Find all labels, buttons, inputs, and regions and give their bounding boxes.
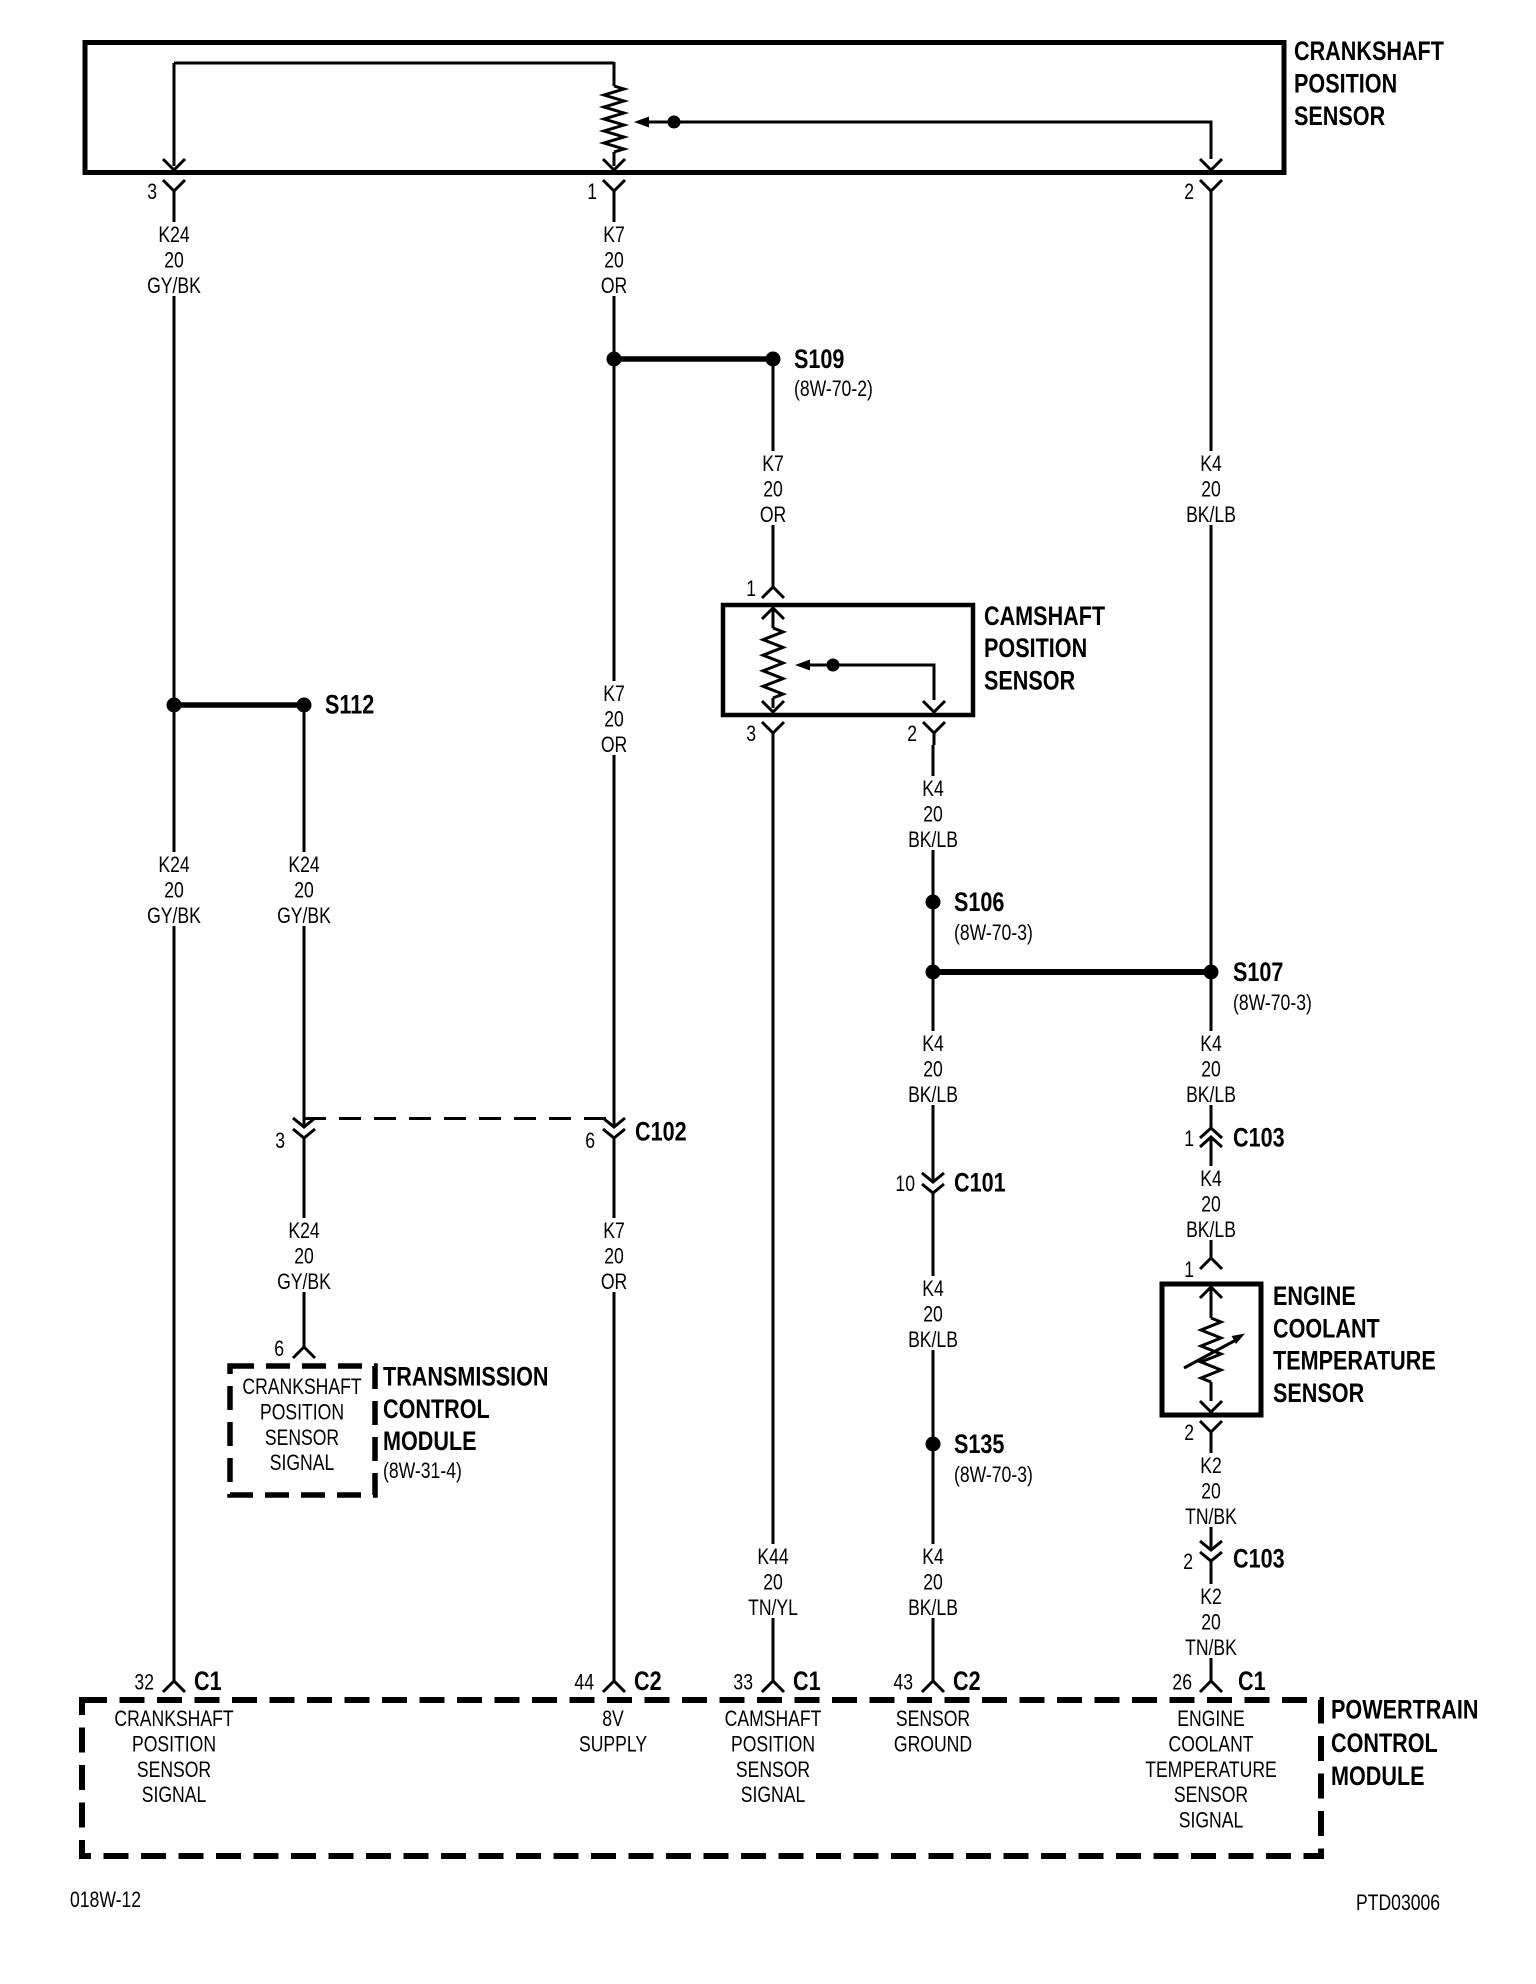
wire label K2 20 TN/BK (above C103)	[1181, 1453, 1241, 1527]
svg-text:20: 20	[294, 879, 314, 903]
svg-text:K4: K4	[922, 1032, 944, 1056]
svg-text:SENSOR: SENSOR	[265, 1426, 339, 1450]
svg-text:K24: K24	[158, 853, 189, 877]
engine coolant temperature sensor box	[1162, 1284, 1261, 1415]
svg-text:ENGINE: ENGINE	[1177, 1707, 1244, 1731]
svg-text:2: 2	[1184, 180, 1194, 204]
svg-text:CAMSHAFT: CAMSHAFT	[725, 1707, 822, 1731]
wire K7 C102 to PCM pin44	[613, 1153, 616, 1681]
svg-text:K7: K7	[603, 223, 625, 247]
svg-text:6: 6	[274, 1337, 284, 1361]
svg-text:CAMSHAFT: CAMSHAFT	[984, 602, 1105, 632]
svg-text:SENSOR: SENSOR	[1273, 1379, 1364, 1409]
svg-text:20: 20	[604, 708, 624, 732]
svg-text:K7: K7	[603, 682, 625, 706]
svg-text:43: 43	[893, 1671, 913, 1695]
wire pin3 internal drop	[173, 63, 176, 166]
arrow into pin 1	[603, 159, 625, 170]
svg-text:SIGNAL: SIGNAL	[1179, 1809, 1244, 1833]
wire label K7 20 OR (top)	[584, 222, 644, 296]
arrow into pin 3	[163, 159, 185, 170]
svg-text:(8W-70-3): (8W-70-3)	[1233, 991, 1312, 1015]
PCM pin 33 fork	[762, 1681, 784, 1692]
cam coil stem top	[772, 608, 775, 628]
wire K2 C103 to PCM pin26	[1210, 1576, 1213, 1681]
svg-text:SUPPLY: SUPPLY	[579, 1733, 647, 1757]
svg-text:1: 1	[1184, 1258, 1194, 1282]
svg-text:TN/BK: TN/BK	[1185, 1636, 1237, 1660]
wiper arrowhead (crankshaft sensor)	[634, 117, 649, 128]
wire K4 crank pin2 to C103	[1210, 203, 1213, 1128]
svg-text:POSITION: POSITION	[132, 1733, 216, 1757]
svg-text:BK/LB: BK/LB	[908, 1328, 958, 1352]
crankshaft position sensor box	[85, 43, 1284, 173]
svg-text:MODULE: MODULE	[1331, 1762, 1425, 1792]
svg-text:K4: K4	[1200, 1032, 1222, 1056]
svg-text:8V: 8V	[602, 1707, 624, 1731]
cam wiper tap dot	[827, 659, 840, 672]
svg-text:C1: C1	[793, 1667, 821, 1697]
svg-text:6: 6	[585, 1129, 595, 1153]
svg-text:K4: K4	[922, 1545, 944, 1569]
svg-text:26: 26	[1172, 1671, 1192, 1695]
svg-text:20: 20	[1201, 1193, 1221, 1217]
svg-text:K4: K4	[1200, 1167, 1222, 1191]
cam coil stem bottom	[772, 698, 775, 708]
transmission control module box (dashed)	[230, 1366, 375, 1495]
svg-text:K24: K24	[288, 853, 319, 877]
svg-text:COOLANT: COOLANT	[1273, 1314, 1380, 1344]
wire label K24 20 GY/BK (top left)	[144, 222, 204, 296]
cam pin 1 fork	[762, 587, 784, 598]
svg-text:COOLANT: COOLANT	[1168, 1733, 1253, 1757]
splice S107 dot left	[926, 965, 941, 980]
svg-text:1: 1	[1184, 1127, 1194, 1151]
svg-text:44: 44	[574, 1671, 594, 1695]
wire label K7 20 OR (bottom)	[584, 1218, 644, 1292]
wire K24 S112 to C102	[303, 712, 306, 1127]
svg-text:20: 20	[604, 1245, 624, 1269]
arrow into pin 2	[1200, 159, 1222, 170]
arrow into cam pin 2	[923, 701, 945, 712]
ECT pin 2 fork	[1200, 1421, 1222, 1444]
wire K2 ECT to C103 pin2	[1210, 1444, 1213, 1550]
svg-text:(8W-31-4): (8W-31-4)	[383, 1459, 462, 1483]
svg-text:S135: S135	[954, 1430, 1004, 1460]
connector C102 pin 3 symbol	[293, 1118, 315, 1153]
svg-text:S107: S107	[1233, 958, 1283, 988]
svg-text:CRANKSHAFT: CRANKSHAFT	[114, 1707, 233, 1731]
arrow into ECT pin 2	[1200, 1401, 1222, 1412]
svg-text:POSITION: POSITION	[260, 1401, 344, 1425]
svg-text:1: 1	[587, 180, 597, 204]
svg-text:20: 20	[604, 249, 624, 273]
splice S112 bar	[174, 702, 304, 708]
svg-text:20: 20	[164, 879, 184, 903]
svg-text:BK/LB: BK/LB	[1186, 1218, 1236, 1242]
svg-text:3: 3	[275, 1129, 285, 1153]
svg-text:TRANSMISSION: TRANSMISSION	[383, 1363, 549, 1393]
svg-text:OR: OR	[760, 503, 786, 527]
svg-text:C102: C102	[635, 1118, 687, 1148]
svg-text:K4: K4	[1200, 452, 1222, 476]
svg-text:TEMPERATURE: TEMPERATURE	[1273, 1346, 1436, 1376]
svg-text:20: 20	[1201, 1480, 1221, 1504]
svg-text:CRANKSHAFT: CRANKSHAFT	[1294, 37, 1444, 67]
svg-text:K24: K24	[288, 1219, 319, 1243]
splice S135 dot	[926, 1437, 941, 1452]
svg-text:20: 20	[1201, 478, 1221, 502]
coil stem top	[613, 62, 616, 86]
svg-text:10: 10	[895, 1172, 915, 1196]
svg-text:20: 20	[763, 478, 783, 502]
connector C103 pin 1 symbol	[1200, 1128, 1222, 1161]
PCM pin 32 fork	[163, 1681, 185, 1692]
wire label K7 20 OR (mid)	[584, 681, 644, 755]
svg-text:TN/YL: TN/YL	[748, 1596, 798, 1620]
cam wiper wire	[809, 665, 934, 700]
wire label K4 20 BK/LB (below C101)	[903, 1276, 963, 1350]
svg-text:SENSOR: SENSOR	[736, 1758, 810, 1782]
svg-text:20: 20	[164, 249, 184, 273]
svg-text:C1: C1	[194, 1667, 222, 1697]
svg-text:3: 3	[147, 180, 157, 204]
svg-text:(8W-70-3): (8W-70-3)	[954, 1463, 1033, 1487]
svg-text:K4: K4	[922, 777, 944, 801]
cam pin 2 fork	[923, 722, 945, 745]
svg-text:K7: K7	[603, 1219, 625, 1243]
wire label K7 20 OR (cam pin1)	[743, 451, 803, 525]
svg-text:OR: OR	[601, 274, 627, 298]
splice S109 dot right	[766, 352, 781, 367]
svg-text:C2: C2	[634, 1667, 662, 1697]
connector C103 pin 2 symbol	[1200, 1541, 1222, 1576]
svg-text:C2: C2	[953, 1667, 981, 1697]
svg-text:GROUND: GROUND	[894, 1733, 972, 1757]
connector C102 pin 6 symbol	[603, 1118, 625, 1153]
wire label K4 20 BK/LB (above PCM)	[903, 1544, 963, 1618]
splice S107 dot right	[1204, 965, 1219, 980]
svg-text:20: 20	[763, 1571, 783, 1595]
wire label K24 20 GY/BK (branch)	[274, 852, 334, 926]
svg-text:SENSOR: SENSOR	[137, 1758, 211, 1782]
resistor coil (camshaft sensor)	[763, 628, 783, 698]
svg-text:S109: S109	[794, 345, 844, 375]
svg-text:2: 2	[907, 722, 917, 746]
PCM pin 43 fork	[922, 1681, 944, 1692]
svg-text:2: 2	[1184, 1421, 1194, 1445]
svg-text:SENSOR: SENSOR	[984, 666, 1075, 696]
svg-text:SENSOR: SENSOR	[896, 1707, 970, 1731]
camshaft position sensor box	[723, 605, 973, 715]
wire label K2 20 TN/BK (above PCM)	[1181, 1584, 1241, 1658]
svg-text:POSITION: POSITION	[1294, 69, 1397, 99]
wire label K4 20 BK/LB (above C101)	[903, 1031, 963, 1105]
svg-text:SENSOR: SENSOR	[1174, 1783, 1248, 1807]
svg-text:20: 20	[923, 1571, 943, 1595]
splice S106 dot	[926, 895, 941, 910]
ECT resistor stem bottom	[1210, 1382, 1213, 1401]
svg-text:SIGNAL: SIGNAL	[741, 1783, 806, 1807]
arrow up into ECT pin 1	[1200, 1287, 1222, 1298]
svg-text:S112: S112	[325, 691, 374, 721]
svg-text:20: 20	[1201, 1611, 1221, 1635]
svg-text:ENGINE: ENGINE	[1273, 1282, 1356, 1312]
wire label K24 20 GY/BK (above TCM)	[274, 1218, 334, 1292]
PCM pin 44 fork	[603, 1681, 625, 1692]
svg-text:K2: K2	[1200, 1585, 1222, 1609]
svg-text:C103: C103	[1233, 1124, 1285, 1154]
svg-text:K44: K44	[757, 1545, 788, 1569]
pin 2 connector fork (crankshaft sensor)	[1200, 180, 1222, 203]
svg-text:K24: K24	[158, 223, 189, 247]
splice S109 bar	[614, 356, 773, 362]
wire K24 C102 to TCM	[303, 1153, 306, 1347]
svg-text:K7: K7	[762, 452, 784, 476]
svg-text:018W-12: 018W-12	[70, 1888, 141, 1912]
svg-text:32: 32	[134, 1671, 154, 1695]
svg-text:OR: OR	[601, 733, 627, 757]
svg-text:MODULE: MODULE	[383, 1427, 477, 1457]
svg-text:TN/BK: TN/BK	[1185, 1505, 1237, 1529]
svg-text:POSITION: POSITION	[984, 634, 1087, 664]
svg-text:20: 20	[923, 803, 943, 827]
svg-text:(8W-70-3): (8W-70-3)	[954, 921, 1033, 945]
svg-text:BK/LB: BK/LB	[908, 1596, 958, 1620]
svg-text:TEMPERATURE: TEMPERATURE	[1145, 1758, 1277, 1782]
wire inside crankshaft sensor (pin3 to coil top)	[174, 62, 614, 65]
wire label K24 20 GY/BK (below S112 left)	[144, 852, 204, 926]
svg-text:C1: C1	[1238, 1667, 1266, 1697]
svg-text:BK/LB: BK/LB	[908, 828, 958, 852]
svg-text:POSITION: POSITION	[731, 1733, 815, 1757]
svg-text:20: 20	[923, 1058, 943, 1082]
arrow into cam pin 3	[762, 701, 784, 712]
pin 1 connector fork (crankshaft sensor)	[603, 180, 625, 203]
svg-text:GY/BK: GY/BK	[277, 904, 331, 928]
wire label K4 20 BK/LB (below S107)	[1181, 1031, 1241, 1105]
TCM pin 6 fork	[293, 1347, 315, 1358]
variable resistor (ECT sensor)	[1201, 1318, 1221, 1382]
wire K44 cam pin3 to PCM pin33	[772, 745, 775, 1681]
svg-text:GY/BK: GY/BK	[277, 1270, 331, 1294]
powertrain control module box (dashed)	[82, 1700, 1321, 1856]
dashed wire C102 link	[304, 1117, 614, 1120]
svg-text:BK/LB: BK/LB	[1186, 503, 1236, 527]
arrow up into cam pin 1	[762, 608, 784, 619]
svg-text:20: 20	[294, 1245, 314, 1269]
svg-text:SIGNAL: SIGNAL	[142, 1783, 207, 1807]
svg-text:BK/LB: BK/LB	[1186, 1083, 1236, 1107]
svg-text:OR: OR	[601, 1270, 627, 1294]
wire label K4 20 BK/LB (top right)	[1181, 451, 1241, 525]
wire K4 cam pin2 to C101	[932, 745, 935, 1182]
svg-text:SENSOR: SENSOR	[1294, 102, 1385, 132]
wire K7 crank pin1 to C102	[613, 203, 616, 1127]
wire label K4 20 BK/LB (above ECT)	[1181, 1166, 1241, 1240]
cam pin 3 fork	[762, 722, 784, 745]
svg-text:K2: K2	[1200, 1454, 1222, 1478]
splice S109 dot left	[607, 352, 622, 367]
svg-text:(8W-70-2): (8W-70-2)	[794, 377, 873, 401]
ECT resistor stem top	[1210, 1287, 1213, 1318]
cam wiper arrowhead	[795, 660, 810, 671]
ECT pin 1 fork	[1200, 1258, 1222, 1269]
svg-text:20: 20	[923, 1303, 943, 1327]
wiper tap dot (crankshaft sensor)	[668, 116, 681, 129]
svg-text:CRANKSHAFT: CRANKSHAFT	[242, 1375, 361, 1399]
pin 3 connector fork (crankshaft sensor)	[163, 180, 185, 203]
wire label K4 20 BK/LB (below cam)	[903, 776, 963, 850]
variable-resistor diagonal arrow	[1184, 1341, 1235, 1369]
svg-text:C101: C101	[954, 1169, 1006, 1199]
coil stem bottom	[613, 152, 616, 166]
resistor coil (crankshaft sensor)	[604, 86, 624, 152]
PCM pin 26 fork	[1200, 1681, 1222, 1692]
svg-text:K4: K4	[922, 1277, 944, 1301]
svg-text:C103: C103	[1233, 1545, 1285, 1575]
splice S112 dot right	[297, 698, 312, 713]
splice S107 bar	[933, 969, 1211, 975]
svg-text:GY/BK: GY/BK	[147, 904, 201, 928]
wire label K44 20 TN/YL	[743, 1544, 803, 1618]
svg-text:33: 33	[733, 1671, 753, 1695]
connector C101 symbol	[922, 1173, 944, 1208]
svg-text:BK/LB: BK/LB	[908, 1083, 958, 1107]
svg-text:20: 20	[1201, 1058, 1221, 1082]
splice S112 dot left	[167, 698, 182, 713]
svg-text:1: 1	[746, 577, 756, 601]
svg-text:GY/BK: GY/BK	[147, 274, 201, 298]
svg-text:S106: S106	[954, 888, 1004, 918]
wiper wire (crankshaft sensor)	[648, 122, 1211, 159]
svg-text:SIGNAL: SIGNAL	[270, 1451, 335, 1475]
svg-text:CONTROL: CONTROL	[1331, 1729, 1438, 1759]
svg-text:3: 3	[746, 722, 756, 746]
svg-text:PTD03006: PTD03006	[1356, 1891, 1440, 1915]
wire K4 C103 to ECT pin1	[1210, 1161, 1213, 1258]
svg-text:POWERTRAIN: POWERTRAIN	[1331, 1696, 1479, 1726]
wire K7 S109 to camshaft sensor pin1	[772, 366, 775, 587]
svg-text:CONTROL: CONTROL	[383, 1395, 490, 1425]
wire K24 crank pin3 to PCM pin32	[173, 203, 176, 1681]
wire K4 C101 to PCM pin43	[932, 1208, 935, 1681]
svg-text:2: 2	[1183, 1550, 1193, 1574]
